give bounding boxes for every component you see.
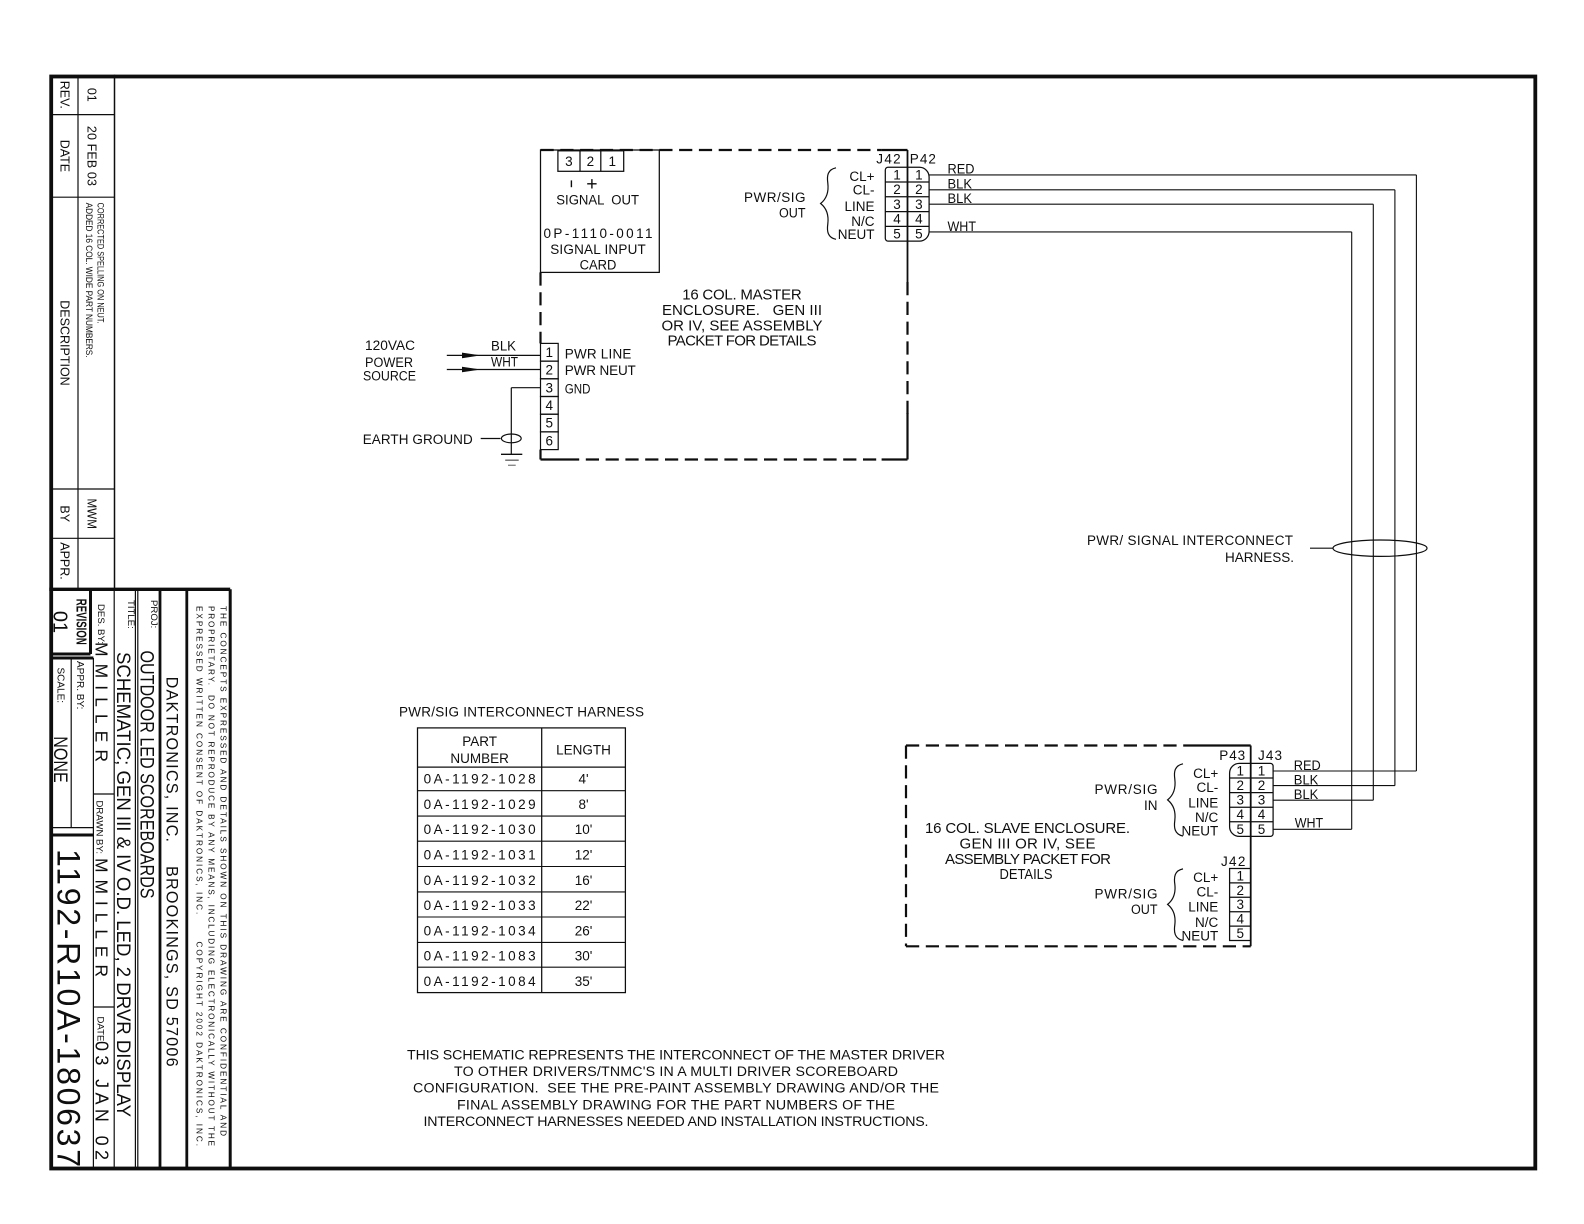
svg-text:5: 5: [546, 416, 554, 431]
svg-text:2: 2: [587, 154, 595, 169]
svg-text:30': 30': [575, 949, 593, 964]
svg-text:0A-1192-1030: 0A-1192-1030: [424, 822, 536, 837]
svg-text:NUMBER: NUMBER: [450, 751, 509, 766]
parts table: [418, 728, 626, 993]
svg-text:GND: GND: [565, 382, 591, 397]
svg-text:0A-1192-1031: 0A-1192-1031: [424, 848, 536, 863]
brace PWR/SIG IN (slave): [1168, 764, 1183, 836]
svg-text:0P-1110-0011: 0P-1110-0011: [544, 226, 653, 241]
svg-text:J42: J42: [1221, 854, 1245, 869]
svg-text:4: 4: [1258, 807, 1266, 822]
svg-text:5: 5: [893, 226, 901, 241]
svg-text:22': 22': [575, 898, 593, 913]
harness ellipse: [1333, 540, 1427, 556]
svg-text:0A-1192-1084: 0A-1192-1084: [424, 974, 536, 989]
wire BLK horizontal: [929, 189, 1395, 191]
svg-text:APPR. BY:: APPR. BY:: [74, 661, 85, 709]
svg-text:BLK: BLK: [948, 177, 973, 192]
svg-text:CARD: CARD: [580, 257, 617, 272]
P43/J43 connector body: [1230, 763, 1274, 836]
svg-text:3: 3: [1236, 793, 1244, 808]
svg-text:0A-1192-1032: 0A-1192-1032: [424, 873, 536, 888]
svg-text:8': 8': [578, 797, 588, 812]
svg-text:3: 3: [915, 197, 923, 212]
svg-text:OUT: OUT: [779, 206, 806, 221]
svg-text:1: 1: [1258, 763, 1266, 778]
signal input card OP-1110-0011: [541, 150, 660, 272]
power terminal block TB 1-6: [541, 343, 559, 361]
svg-text:16': 16': [575, 873, 593, 888]
ground lug ellipse: [501, 434, 521, 443]
power line wire with arrow: [447, 354, 541, 356]
svg-text:1: 1: [546, 345, 554, 360]
brace PWR/SIG OUT (slave): [1168, 869, 1183, 941]
svg-text:WHT: WHT: [1295, 815, 1324, 830]
svg-text:0A-1192-1083: 0A-1192-1083: [424, 949, 536, 964]
svg-text:LINE: LINE: [844, 199, 874, 214]
svg-text:2: 2: [1258, 778, 1266, 793]
svg-text:THE CONCEPTS EXPRESSED AND DET: THE CONCEPTS EXPRESSED AND DETAILS SHOWN…: [218, 606, 227, 1136]
svg-text:0A-1192-1028: 0A-1192-1028: [424, 772, 536, 787]
wire WHT into J43-5: [1273, 828, 1352, 830]
svg-text:TITLE:: TITLE:: [125, 600, 136, 629]
svg-text:3: 3: [893, 197, 901, 212]
svg-text:LINE: LINE: [1188, 795, 1218, 810]
wire WHT vertical: [1351, 232, 1353, 829]
svg-text:BLK: BLK: [1294, 787, 1319, 802]
svg-text:DES. BY:: DES. BY:: [95, 604, 106, 644]
svg-text:NEUT: NEUT: [1182, 823, 1219, 838]
svg-text:NEUT: NEUT: [1182, 929, 1219, 944]
svg-text:THIS SCHEMATIC REPRESENTS THE: THIS SCHEMATIC REPRESENTS THE INTERCONNE…: [407, 1047, 945, 1063]
svg-text:SCALE:: SCALE:: [55, 668, 66, 704]
svg-text:PACKET FOR DETAILS: PACKET FOR DETAILS: [668, 333, 817, 350]
svg-text:1: 1: [608, 154, 616, 169]
svg-text:PWR/SIG: PWR/SIG: [1095, 782, 1158, 797]
earth ground symbol: [501, 453, 522, 455]
svg-text:120VAC: 120VAC: [365, 338, 415, 353]
svg-text:J43: J43: [1258, 748, 1282, 763]
svg-text:10': 10': [575, 822, 593, 837]
svg-text:3: 3: [565, 154, 573, 169]
svg-text:PWR LINE: PWR LINE: [565, 347, 632, 362]
svg-text:OUTDOOR LED SCOREBOARDS: OUTDOOR LED SCOREBOARDS: [136, 651, 158, 899]
svg-text:5: 5: [1258, 822, 1266, 837]
svg-text:CL-: CL-: [853, 183, 875, 198]
svg-text:2: 2: [893, 182, 901, 197]
svg-text:ADDED 16 COL. WIDE PART NUMBER: ADDED 16 COL. WIDE PART NUMBERS.: [83, 203, 94, 358]
svg-text:HARNESS.: HARNESS.: [1225, 550, 1294, 565]
svg-text:RED: RED: [1294, 758, 1321, 773]
svg-text:01: 01: [85, 88, 99, 102]
svg-text:01: 01: [49, 611, 71, 633]
wire RED horizontal: [929, 174, 1416, 176]
svg-text:PROJ:: PROJ:: [148, 600, 159, 628]
svg-text:P42: P42: [910, 151, 936, 166]
svg-text:PWR/SIG: PWR/SIG: [744, 190, 806, 205]
polarity mark plus: [587, 183, 596, 185]
svg-text:03 JAN 02: 03 JAN 02: [92, 1041, 112, 1160]
svg-text:J42: J42: [876, 151, 900, 166]
svg-text:PWR/ SIGNAL INTERCONNECT: PWR/ SIGNAL INTERCONNECT: [1087, 533, 1293, 548]
svg-text:LENGTH: LENGTH: [556, 743, 611, 758]
svg-text:SIGNAL OUT: SIGNAL OUT: [556, 192, 639, 207]
wire BLK into J43-2: [1273, 785, 1395, 787]
svg-text:4: 4: [1236, 912, 1244, 927]
svg-text:SOURCE: SOURCE: [363, 368, 416, 383]
svg-text:4: 4: [546, 398, 554, 413]
svg-text:REVISION: REVISION: [73, 599, 89, 645]
svg-text:4: 4: [893, 212, 901, 227]
svg-text:CL+: CL+: [1193, 766, 1218, 781]
svg-text:GEN III OR IV, SEE: GEN III OR IV, SEE: [960, 836, 1096, 853]
svg-text:CONFIGURATION. SEE THE PRE-PA: CONFIGURATION. SEE THE PRE-PAINT ASSEMBL…: [413, 1081, 939, 1097]
svg-text:PWR NEUT: PWR NEUT: [565, 363, 636, 378]
title block top thick line: [49, 588, 230, 591]
wire RED into J43-1: [1273, 770, 1416, 772]
svg-text:TO OTHER DRIVERS/TNMC'S IN A M: TO OTHER DRIVERS/TNMC'S IN A MULTI DRIVE…: [454, 1064, 898, 1080]
svg-text:3: 3: [546, 380, 554, 395]
svg-text:NONE: NONE: [49, 736, 70, 782]
svg-text:APPR.: APPR.: [58, 542, 72, 580]
svg-text:MMILLER: MMILLER: [92, 642, 112, 762]
svg-text:3: 3: [1236, 897, 1244, 912]
polarity mark minus: [570, 180, 572, 187]
svg-text:LINE: LINE: [1188, 900, 1218, 915]
svg-text:SCHEMATIC; GEN III & IV O.D. L: SCHEMATIC; GEN III & IV O.D. LED, 2 DRVR…: [112, 652, 133, 1117]
J42/P42 connector body: [885, 167, 929, 241]
svg-text:2: 2: [1236, 778, 1244, 793]
signal out connector 3 2 1: [558, 151, 624, 172]
ground wire: [510, 388, 512, 455]
svg-text:CL+: CL+: [1193, 870, 1218, 885]
svg-text:1: 1: [915, 167, 923, 182]
J42 slave connector cells: [1230, 869, 1251, 941]
svg-text:5: 5: [1236, 926, 1244, 941]
wire RED vertical: [1415, 175, 1417, 771]
svg-text:35': 35': [575, 974, 593, 989]
svg-text:PROPRIETARY. DO NOT REPRODUCE: PROPRIETARY. DO NOT REPRODUCE BY ANY MEA…: [206, 606, 215, 1147]
svg-text:4': 4': [578, 772, 588, 787]
svg-text:2: 2: [1236, 883, 1244, 898]
svg-text:0A-1192-1034: 0A-1192-1034: [424, 923, 536, 938]
svg-text:DATE: DATE: [58, 140, 72, 172]
svg-text:12': 12': [575, 848, 593, 863]
svg-text:BLK: BLK: [1294, 773, 1319, 788]
svg-text:OUT: OUT: [1131, 902, 1158, 917]
svg-text:1: 1: [893, 167, 901, 182]
revision strip grid: [77, 77, 79, 590]
svg-text:DATE:: DATE:: [95, 1017, 106, 1045]
master enclosure dashed box: [541, 149, 882, 151]
svg-text:16 COL. SLAVE ENCLOSURE.: 16 COL. SLAVE ENCLOSURE.: [925, 820, 1130, 837]
brace PWR/SIG OUT (master): [821, 168, 836, 240]
svg-text:INTERCONNECT HARNESSES NEEDED: INTERCONNECT HARNESSES NEEDED AND INSTAL…: [424, 1114, 929, 1130]
svg-text:4: 4: [1236, 807, 1244, 822]
svg-text:2: 2: [546, 363, 554, 378]
svg-text:26': 26': [575, 923, 593, 938]
svg-text:1: 1: [1236, 763, 1244, 778]
svg-text:1: 1: [1236, 868, 1244, 883]
svg-text:PWR/SIG: PWR/SIG: [1095, 887, 1158, 902]
svg-text:0A-1192-1029: 0A-1192-1029: [424, 797, 536, 812]
svg-text:MWM: MWM: [85, 498, 99, 529]
svg-text:BLK: BLK: [491, 339, 516, 354]
svg-text:4: 4: [915, 212, 923, 227]
svg-text:BY: BY: [58, 505, 72, 522]
svg-text:WHT: WHT: [491, 355, 518, 370]
svg-text:FINAL ASSEMBLY DRAWING FOR THE: FINAL ASSEMBLY DRAWING FOR THE PART NUMB…: [457, 1097, 895, 1113]
svg-text:REV.: REV.: [58, 81, 72, 109]
svg-text:DETAILS: DETAILS: [1000, 866, 1053, 883]
callout leader: [1310, 547, 1333, 549]
svg-text:EXPRESSED WRITTEN CONSENT OF D: EXPRESSED WRITTEN CONSENT OF DAKTRONICS,…: [195, 606, 204, 1146]
svg-text:20 FEB 03: 20 FEB 03: [85, 126, 99, 186]
wire WHT horizontal: [929, 231, 1352, 233]
title block verticals: [89, 589, 92, 654]
wire BLK2 into J43-3: [1273, 799, 1373, 801]
wire BLK vertical: [1394, 190, 1396, 786]
power neut wire with arrow: [447, 369, 541, 371]
svg-text:MMILLER: MMILLER: [92, 858, 112, 977]
svg-text:0A-1192-1033: 0A-1192-1033: [424, 898, 536, 913]
svg-text:CL-: CL-: [1197, 884, 1219, 899]
svg-text:DRAWN BY:: DRAWN BY:: [94, 801, 105, 854]
svg-text:WHT: WHT: [948, 219, 977, 234]
svg-text:3: 3: [1258, 793, 1266, 808]
svg-text:IN: IN: [1144, 798, 1158, 813]
svg-text:DAKTRONICS, INC. BROOKINGS,: DAKTRONICS, INC. BROOKINGS, SD 57006: [162, 677, 180, 1067]
svg-text:1192-R10A-180637: 1192-R10A-180637: [51, 849, 87, 1167]
svg-text:5: 5: [915, 226, 923, 241]
svg-text:RED: RED: [948, 162, 975, 177]
svg-text:5: 5: [1236, 822, 1244, 837]
svg-text:SIGNAL INPUT: SIGNAL INPUT: [550, 242, 646, 257]
svg-text:DESCRIPTION: DESCRIPTION: [58, 300, 72, 385]
slave enclosure dashed box: [906, 744, 1191, 746]
svg-text:CORRECTED SPELLING ON NEUT.: CORRECTED SPELLING ON NEUT.: [95, 203, 106, 324]
svg-text:BLK: BLK: [948, 191, 973, 206]
svg-text:2: 2: [915, 182, 923, 197]
svg-text:PART: PART: [462, 734, 497, 749]
svg-text:CL-: CL-: [1197, 780, 1219, 795]
wire BLK2 horizontal: [929, 203, 1373, 205]
svg-text:NEUT: NEUT: [838, 227, 875, 242]
svg-text:PWR/SIG INTERCONNECT HARNESS: PWR/SIG INTERCONNECT HARNESS: [399, 705, 644, 720]
wire BLK2 vertical: [1372, 204, 1374, 800]
svg-text:P43: P43: [1219, 748, 1245, 763]
svg-text:6: 6: [546, 433, 554, 448]
svg-text:EARTH GROUND: EARTH GROUND: [363, 432, 473, 447]
